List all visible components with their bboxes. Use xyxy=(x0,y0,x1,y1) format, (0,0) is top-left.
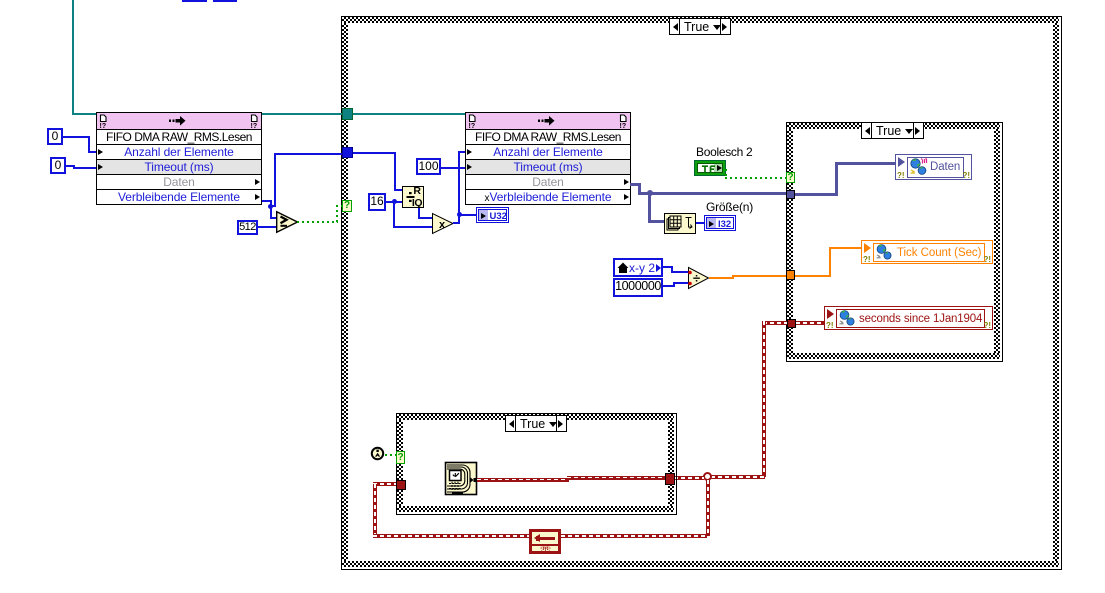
junction dot violet xyxy=(647,190,653,196)
case structure: bottom True case xyxy=(396,413,677,515)
shared variable: Tick Count (Sec) xyxy=(861,240,993,264)
svg-text:!?: !? xyxy=(469,123,476,130)
wire: orange tunnel to Tick Count xyxy=(795,275,831,277)
wire: violet tunnel to Daten node xyxy=(795,193,838,196)
function: feedback node xyxy=(529,529,561,554)
function: multiply xyxy=(432,213,455,234)
wire: dot to U32 indicator xyxy=(460,214,476,216)
svg-text:!?: !? xyxy=(620,123,627,130)
constant 512 xyxy=(237,220,258,235)
wire: teal tunnel to FIFO2 xyxy=(353,113,465,115)
wire: violet down to array size xyxy=(648,193,651,223)
tunnel: ? tunnel bottom case xyxy=(396,451,405,464)
wire: FIFO2 Daten violet output xyxy=(630,183,641,186)
wire: multiply output up to FIFO2 Anzahl and U32 xyxy=(453,222,460,224)
wire: 512 to comparator xyxy=(258,226,278,228)
wire: teal FIFO refnum vertical from top edge xyxy=(72,0,74,115)
constant 0 (Anzahl FIFO1) xyxy=(47,128,63,145)
wire: teal from FIFO1 to tunnel xyxy=(262,113,343,115)
label Größe(n) xyxy=(706,200,753,214)
constant 0 (Timeout FIFO1) xyxy=(50,157,66,174)
tunnel: orange tunnel xyxy=(786,270,795,280)
wire: teal horizontal into FIFO node 1 xyxy=(72,113,96,115)
wire: feedback loop bottom xyxy=(373,482,396,486)
constant 1000000 xyxy=(613,278,663,297)
case structure: inner right True case xyxy=(786,122,1003,362)
wire: Verbleibende Elemente FIFO1 output xyxy=(262,200,272,202)
indicator U32 xyxy=(476,207,509,223)
wire: red tunnel to seconds node xyxy=(796,321,824,325)
tunnel: blue tunnel on case border xyxy=(342,147,353,158)
wire: green dotted comparator to ? tunnel xyxy=(297,221,338,223)
wire: array size to I32 xyxy=(696,222,704,224)
wire: red dashed from inner case down to junction xyxy=(763,321,787,325)
indicator I32 xyxy=(704,215,736,231)
function: Array Size xyxy=(664,213,696,234)
constant: TF boolean xyxy=(694,160,726,176)
global variable x-y 2 xyxy=(613,258,663,277)
function: divide xyxy=(688,267,710,289)
tunnel: dark red tunnel inner case xyxy=(787,319,796,328)
junction dot at 16 xyxy=(392,199,397,204)
wire: blue tunnel to quotient node xyxy=(353,152,396,154)
comparator: Greater Or Equal ≥ xyxy=(276,211,300,233)
wire: 100 to FIFO2 Timeout xyxy=(441,167,465,169)
tunnel: ? tunnel main case xyxy=(342,200,352,212)
function: Quotient & Remainder xyxy=(402,186,424,208)
case structure: main True case border xyxy=(341,16,1062,570)
tunnel: violet tunnel xyxy=(786,190,795,199)
junction: open circle xyxy=(703,472,712,481)
tunnel: red tunnel left of bottom case xyxy=(396,480,406,490)
tunnel: teal refnum tunnel on case border xyxy=(342,108,353,120)
shared variable: seconds since 1Jan1904 xyxy=(824,306,993,330)
junction dot multiply xyxy=(457,212,462,217)
shared variable: Daten xyxy=(895,154,972,180)
wire: green dotted first call to ? xyxy=(385,454,397,456)
constant 100 xyxy=(416,158,441,175)
wire: green dotted TF to inner case xyxy=(725,169,727,178)
tunnel: ? tunnel inner case xyxy=(786,172,795,183)
svg-text:÷: ÷ xyxy=(693,271,700,286)
case selector: main case "True" xyxy=(669,18,731,35)
constant: clipped blue constant 2 at top edge xyxy=(213,0,237,2)
tunnel: red tunnel right of bottom case xyxy=(665,473,675,485)
wire: 0 to Anzahl der Elemente xyxy=(63,136,90,138)
constant: clipped blue constant 1 at top edge xyxy=(182,0,207,2)
wire: orange divide to tunnel xyxy=(709,277,734,279)
FIFO node 1: FIFO DMA RAW_RMS.Lesen xyxy=(96,112,262,205)
svg-text:!?: !? xyxy=(100,123,107,130)
wire: 1000000 to divide xyxy=(663,285,675,287)
wire: circle to bottom case tunnel xyxy=(674,476,704,480)
wire: get date output to right tunnel xyxy=(477,478,569,482)
svg-text:x: x xyxy=(439,219,446,231)
wire: IQ output to multiply xyxy=(418,208,420,219)
wire: 16 down to multiply xyxy=(393,202,395,227)
wire: 16 to quotient/remainder xyxy=(386,201,402,203)
svg-text:!?: !? xyxy=(251,123,258,130)
label Boolesch 2 xyxy=(696,145,752,159)
function: First Call? xyxy=(370,446,385,461)
constant 16 xyxy=(368,193,386,211)
wire: x-y 2 to divide xyxy=(663,266,673,268)
wire: dot down to comparator xyxy=(270,207,272,219)
FIFO node 2: FIFO DMA RAW_RMS.Lesen xyxy=(465,112,631,205)
wire: 0 to Timeout xyxy=(66,165,75,167)
function: Get Date/Time In Seconds xyxy=(445,462,477,495)
wire: red vertical down from circle xyxy=(706,480,710,536)
case selector: bottom "True" xyxy=(505,415,567,432)
junction dot xyxy=(268,204,273,209)
case selector: inner right "True" xyxy=(861,122,924,139)
wire: dot up to blue tunnel xyxy=(272,205,276,207)
